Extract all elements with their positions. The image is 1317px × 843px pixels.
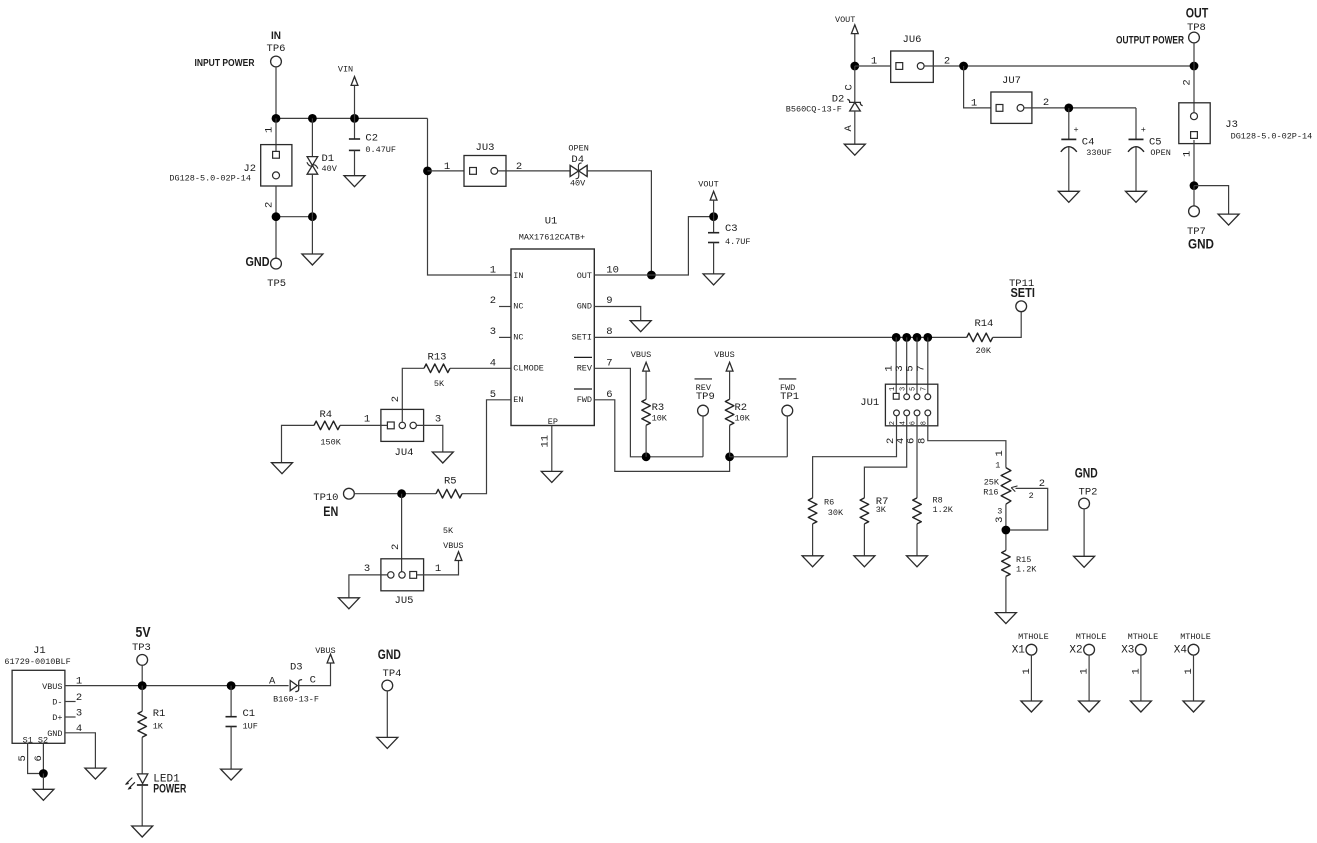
junction OUTPUT/TP8 [1190, 62, 1199, 71]
ground below C5 [1126, 191, 1147, 202]
wire R5 to U1 pin5 [462, 400, 511, 494]
wire SETI to JU1 pin5 [916, 337, 918, 394]
svg-text:J1: J1 [33, 645, 46, 657]
U1 pin 11 EP [539, 417, 558, 471]
ground right of TP7 [1218, 214, 1239, 225]
testpoint TP7 (GND) [1187, 206, 1214, 252]
connector J2 [169, 118, 292, 186]
wire GND node to TP5 [275, 217, 277, 259]
junction D4/OUT [647, 271, 656, 280]
svg-text:0.47UF: 0.47UF [365, 145, 396, 155]
junction 5V/C1 [227, 681, 236, 690]
junction IN/J2 [272, 114, 281, 123]
capacitor C5 OPEN [1128, 108, 1171, 191]
resistor R8 1.2K [913, 496, 954, 556]
svg-text:1: 1 [1021, 668, 1033, 674]
svg-text:U1: U1 [545, 216, 558, 228]
U1 pin 10 OUT [577, 265, 619, 281]
J3 pin 2 label [1182, 79, 1194, 85]
svg-text:1: 1 [871, 56, 877, 68]
svg-text:3: 3 [490, 326, 496, 338]
J1 pin 2 D- [52, 692, 82, 708]
svg-text:2: 2 [390, 396, 402, 402]
svg-text:2: 2 [1043, 97, 1049, 109]
capacitor C2 0.47UF [349, 118, 396, 175]
svg-text:C3: C3 [725, 223, 738, 235]
ground U1 pin9 [630, 321, 651, 332]
svg-text:TP5: TP5 [267, 278, 286, 290]
testpoint TP9 (/REV) [695, 379, 715, 457]
testpoint TP6 (IN, INPUT POWER) [195, 30, 286, 69]
svg-text:3K: 3K [876, 505, 887, 515]
TVS diode D1 40V [307, 118, 338, 216]
wire J1 pin1 5V net [65, 685, 289, 687]
wire to JU3 pin1 [428, 170, 465, 172]
svg-text:X4: X4 [1174, 645, 1188, 657]
svg-text:6: 6 [910, 421, 918, 425]
svg-text:3: 3 [899, 387, 907, 391]
svg-text:R3: R3 [652, 402, 665, 414]
svg-text:GND: GND [1075, 465, 1098, 481]
svg-text:GND: GND [1188, 236, 1214, 252]
svg-text:IN: IN [271, 30, 281, 42]
svg-text:EN: EN [323, 503, 338, 519]
svg-text:40V: 40V [322, 164, 338, 174]
svg-text:OPEN: OPEN [1150, 148, 1170, 158]
svg-text:OUTPUT POWER: OUTPUT POWER [1116, 35, 1184, 47]
wire U1 pin9 to ground [594, 307, 640, 321]
svg-text:IN: IN [513, 271, 523, 281]
testpoint TP3 (5V) [132, 624, 151, 665]
ground below R4 [272, 463, 293, 474]
svg-text:R5: R5 [444, 476, 457, 488]
mounting hole X2 MTHOLE [1069, 632, 1106, 701]
wire D4 to OUT node [587, 171, 651, 275]
svg-text:1: 1 [435, 563, 441, 575]
ground below U1 EP [541, 471, 562, 482]
svg-text:1: 1 [995, 460, 1000, 470]
wire shield to ground [42, 774, 44, 790]
wire JU4 pin3 to ground [416, 425, 442, 452]
JU1 inner pin numbers top [889, 387, 929, 391]
svg-text:1: 1 [889, 387, 897, 391]
wire GND node to TP7 [1193, 186, 1195, 207]
svg-text:C: C [844, 84, 856, 90]
svg-text:VBUS: VBUS [443, 541, 463, 551]
capacitor C4 330UF [1061, 108, 1112, 191]
svg-text:1: 1 [994, 450, 1006, 456]
svg-text:A: A [843, 125, 855, 132]
junction SETI/JU1 pin7 [923, 333, 932, 342]
junction R16 wiper/R15 [1002, 526, 1011, 535]
junction SETI/JU1 pin3 [902, 333, 911, 342]
resistor R14 20K [967, 318, 994, 356]
ground below R7 [854, 556, 875, 567]
jumper JU3 [464, 142, 506, 187]
svg-text:+: + [1074, 125, 1079, 135]
svg-text:3: 3 [994, 516, 1006, 522]
svg-text:2: 2 [390, 544, 402, 550]
junction SETI/JU1 pin1 [892, 333, 901, 342]
wire J2 pin2 to GND node [275, 186, 277, 217]
svg-text:1: 1 [490, 265, 496, 277]
svg-text:X3: X3 [1121, 645, 1134, 657]
capacitor C3 4.7UF [708, 217, 751, 274]
U1 pin 9 GND [577, 295, 613, 311]
power net VBUS at JU5 [443, 541, 463, 560]
wire FWD node to TP1 [730, 456, 788, 458]
junction EN/JU5 [397, 489, 406, 498]
svg-text:1: 1 [264, 127, 276, 133]
wire SETI to JU1 pin1 [895, 337, 897, 393]
J1 pin 4 GND [47, 723, 82, 739]
svg-text:1: 1 [444, 161, 450, 173]
connector J3 [1179, 103, 1312, 144]
ground below C2 [344, 176, 365, 187]
svg-text:C5: C5 [1149, 136, 1162, 148]
svg-text:JU5: JU5 [395, 595, 414, 607]
svg-text:10K: 10K [735, 414, 751, 424]
svg-text:2: 2 [490, 295, 496, 307]
wire R4 to JU4 [340, 424, 387, 426]
svg-text:5: 5 [910, 387, 918, 391]
wire VOUT to JU6 [855, 65, 891, 67]
op-amp U1 MAX17612CATB+ body [511, 216, 594, 426]
wire U1 pin8 SETI net [594, 336, 966, 338]
svg-text:POWER: POWER [153, 783, 187, 795]
svg-text:1: 1 [1182, 151, 1194, 157]
svg-text:5K: 5K [434, 379, 445, 389]
ground below D1 [302, 217, 323, 265]
resistor R4 150K [282, 409, 342, 463]
svg-text:VIN: VIN [338, 65, 353, 75]
potentiometer R16 25K [983, 460, 1048, 550]
wire JU1 pin2 to R6 [813, 416, 897, 498]
svg-text:10K: 10K [652, 414, 668, 424]
svg-text:TP4: TP4 [383, 668, 402, 680]
ground below X4 [1183, 701, 1204, 712]
mounting hole X4 MTHOLE [1174, 632, 1211, 701]
J2 pin 1 label [264, 127, 276, 133]
svg-text:D+: D+ [52, 713, 62, 723]
svg-text:JU3: JU3 [476, 142, 495, 154]
svg-text:MAX17612CATB+: MAX17612CATB+ [519, 233, 585, 243]
wire VIN bus (IN node) [276, 117, 428, 119]
wire GND node to D1 [276, 216, 312, 218]
ground below R8 [907, 556, 928, 567]
jumper JU6 [891, 34, 934, 83]
svg-text:D3: D3 [290, 662, 303, 674]
svg-text:B560CQ-13-F: B560CQ-13-F [786, 105, 842, 115]
junction JU6/JU7 [959, 62, 968, 71]
R16 net stub label 1 [994, 450, 1006, 456]
TVS diode D4 40V OPEN [568, 143, 588, 188]
connector J1 61729-0010BLF body [4, 645, 70, 743]
svg-text:INPUT POWER: INPUT POWER [195, 58, 256, 69]
wire U1 pin6 to FWD node [594, 400, 729, 472]
svg-text:4.7UF: 4.7UF [725, 237, 751, 247]
JU3 pin 1 label [444, 161, 450, 173]
power net VIN [338, 65, 358, 119]
JU4 pin 1 label [364, 414, 370, 426]
svg-text:R14: R14 [974, 318, 993, 330]
U1 pin 6 /FWD [574, 389, 613, 405]
resistor R5 5K [436, 476, 462, 537]
JU5 pin 1 label [435, 563, 441, 575]
svg-text:TP2: TP2 [1079, 486, 1098, 498]
junction VOUT node [709, 212, 718, 221]
svg-text:150K: 150K [320, 438, 341, 448]
ground below C4 [1058, 191, 1079, 202]
ground below TP2 [1074, 556, 1095, 567]
svg-text:2: 2 [1039, 478, 1045, 490]
wire IN bus down to U1 pin1 [428, 118, 512, 275]
U1 pin 3 NC [490, 326, 524, 343]
svg-text:FWD: FWD [577, 395, 592, 405]
svg-text:R4: R4 [319, 409, 332, 421]
U1 pin 7 /REV [574, 357, 613, 373]
wire TP6 to VIN bus [275, 67, 277, 119]
svg-text:3: 3 [435, 414, 441, 426]
wire JU6-2 down to JU7 [964, 66, 991, 108]
svg-text:R1: R1 [153, 708, 166, 720]
JU5 pin 3 label [364, 563, 370, 575]
wire GND node to ground [1194, 186, 1229, 215]
svg-text:GND: GND [246, 254, 270, 269]
svg-text:TP6: TP6 [267, 43, 286, 55]
svg-text:R2: R2 [735, 402, 748, 414]
resistor R13 5K [402, 352, 511, 422]
svg-text:REV: REV [577, 364, 593, 374]
svg-text:8: 8 [606, 326, 612, 338]
testpoint TP1 (/FWD) [779, 379, 799, 457]
jumper JU1 (4x2 header) [860, 384, 938, 426]
svg-text:+: + [1141, 125, 1146, 135]
svg-text:TP1: TP1 [780, 391, 799, 403]
junction J2/TP5 [272, 212, 281, 221]
svg-text:EN: EN [513, 395, 523, 405]
svg-text:JU1: JU1 [860, 397, 879, 409]
wire D3 cathode to VBUS [299, 663, 331, 686]
svg-text:VBUS: VBUS [315, 646, 335, 656]
svg-text:EP: EP [548, 417, 558, 427]
testpoint TP10 (EN) [313, 488, 354, 519]
svg-text:TP9: TP9 [696, 391, 715, 403]
junction R3/REV [642, 452, 651, 461]
svg-text:1K: 1K [153, 721, 164, 731]
wire JU3 to D4 [498, 170, 570, 172]
svg-text:C1: C1 [243, 708, 256, 720]
wire SETI to JU1 pin7 [927, 337, 929, 394]
svg-text:DG128-5.0-02P-14: DG128-5.0-02P-14 [169, 174, 251, 184]
U1 pin 5 EN [490, 389, 524, 405]
wire TP10 to R5 [354, 493, 436, 495]
svg-text:JU4: JU4 [395, 447, 414, 459]
JU3 pin 2 label [516, 161, 522, 173]
svg-text:C4: C4 [1082, 136, 1095, 148]
wire U1 pin7 to R3 node [594, 368, 703, 457]
wire JU6 to OUTPUT node [924, 65, 1194, 67]
wire JU7 to C4/C5 [1024, 107, 1136, 109]
testpoint TP11 (SETI) [1009, 278, 1035, 312]
mounting hole X3 MTHOLE [1121, 632, 1158, 701]
svg-text:2: 2 [76, 692, 82, 704]
wire J1 pin4 to ground [65, 733, 96, 768]
svg-text:1.2K: 1.2K [933, 505, 954, 515]
svg-text:TP3: TP3 [132, 642, 151, 654]
svg-text:3: 3 [997, 506, 1002, 516]
U1 pin 8 SETI [572, 326, 613, 343]
svg-text:VBUS: VBUS [42, 682, 62, 692]
resistor R6 30K [808, 498, 844, 556]
JU7 pin 1 label [971, 98, 977, 110]
junction D1 anode [308, 212, 317, 221]
ground below C3 [703, 274, 724, 285]
svg-text:1: 1 [1079, 668, 1091, 674]
junction 5V/R1 [138, 681, 147, 690]
svg-text:2: 2 [889, 421, 897, 425]
J1 pin 1 VBUS [42, 676, 82, 692]
power net VBUS at R2 [714, 350, 734, 399]
power net VBUS at D3 [315, 646, 335, 663]
jumper JU5 [381, 559, 424, 607]
svg-text:1: 1 [1183, 668, 1195, 674]
wire EN junction to JU5 [401, 494, 403, 572]
wire SETI to JU1 pin3 [906, 337, 908, 394]
svg-text:9: 9 [606, 295, 612, 307]
wire JU1 pin4 to R7 [864, 416, 906, 498]
JU1 inner pin numbers bottom [889, 421, 929, 425]
J1 shield pins S1 S2 [17, 736, 48, 774]
svg-text:5K: 5K [443, 526, 454, 536]
svg-text:DG128-5.0-02P-14: DG128-5.0-02P-14 [1231, 132, 1313, 142]
junction JU3 tap [423, 167, 432, 176]
zener diode D2 B560CQ-13-F [786, 66, 863, 144]
svg-text:MTHOLE: MTHOLE [1076, 632, 1107, 642]
ground below X3 [1130, 701, 1151, 712]
svg-text:5: 5 [17, 755, 29, 761]
svg-text:MTHOLE: MTHOLE [1128, 632, 1159, 642]
jumper JU7 [991, 75, 1032, 124]
svg-text:61729-0010BLF: 61729-0010BLF [4, 657, 70, 667]
wire TP3 down to 5V node [141, 665, 143, 686]
svg-text:MTHOLE: MTHOLE [1018, 632, 1049, 642]
svg-text:25K: 25K [984, 477, 1000, 487]
svg-text:1UF: 1UF [243, 721, 258, 731]
svg-text:TP8: TP8 [1187, 22, 1206, 34]
U1 pin 2 NC [490, 295, 524, 311]
svg-text:3: 3 [364, 563, 370, 575]
svg-text:VBUS: VBUS [631, 350, 651, 360]
testpoint TP5 (GND) [246, 254, 287, 290]
svg-text:R15: R15 [1016, 555, 1031, 565]
svg-text:8: 8 [916, 438, 928, 444]
svg-text:R6: R6 [824, 498, 834, 508]
svg-text:2: 2 [264, 202, 276, 208]
svg-text:B160-13-F: B160-13-F [273, 695, 319, 705]
svg-text:C2: C2 [365, 132, 378, 144]
resistor R15 1.2K [1002, 550, 1038, 612]
svg-text:S1 S2: S1 S2 [23, 736, 49, 746]
ground below LED1 [132, 826, 153, 837]
svg-text:7: 7 [920, 387, 928, 391]
svg-text:SETI: SETI [1010, 286, 1035, 300]
JU1 net stub labels 1 3 5 7 [884, 365, 928, 371]
svg-text:D4: D4 [571, 154, 584, 166]
JU6 pin 2 label [944, 56, 950, 68]
svg-text:J3: J3 [1225, 119, 1238, 131]
svg-text:D-: D- [52, 698, 62, 708]
svg-text:CLMODE: CLMODE [513, 364, 544, 374]
JU1 net stub labels 2 4 6 8 [885, 438, 928, 444]
ground below C1 [221, 769, 242, 780]
power net VOUT at C3 [698, 180, 718, 217]
svg-text:MTHOLE: MTHOLE [1180, 632, 1211, 642]
resistor R3 10K [642, 399, 668, 457]
J2 pin 2 label [264, 202, 276, 208]
svg-text:R8: R8 [933, 496, 943, 506]
wire JU5 pin3 to ground [349, 575, 388, 598]
svg-text:OPEN: OPEN [568, 143, 588, 153]
U1 pin 4 CLMODE [490, 358, 544, 374]
svg-text:R13: R13 [428, 352, 447, 364]
ground JU5 pin3 [338, 598, 359, 609]
ground below X1 [1021, 701, 1042, 712]
svg-text:11: 11 [539, 435, 551, 448]
junction R2/FWD [725, 452, 734, 461]
svg-text:NC: NC [513, 301, 523, 311]
svg-text:NC: NC [513, 333, 523, 343]
JU5 pin 2 label [390, 544, 402, 550]
svg-text:1: 1 [1130, 668, 1142, 674]
svg-text:330UF: 330UF [1086, 148, 1112, 158]
svg-text:SETI: SETI [572, 333, 592, 343]
JU4 pin 3 label [435, 414, 441, 426]
junction IN/D1 [308, 114, 317, 123]
power net VBUS at R3 [631, 350, 651, 399]
JU4 pin 2 label [390, 396, 402, 402]
svg-text:JU6: JU6 [903, 34, 922, 46]
wire JU1 pin6 to R8 [916, 416, 918, 498]
svg-text:30K: 30K [828, 508, 844, 518]
junction J3/TP7 [1190, 181, 1199, 190]
junction IN/C2 [350, 114, 359, 123]
svg-text:4: 4 [899, 421, 907, 425]
J1 pin 3 D+ [52, 708, 82, 724]
testpoint TP4 (GND) [378, 646, 402, 737]
svg-text:40V: 40V [570, 179, 586, 189]
svg-text:1: 1 [364, 414, 370, 426]
power net VOUT at D2 [835, 15, 858, 66]
junction JU7/C4 [1064, 104, 1073, 113]
ground below X2 [1079, 701, 1100, 712]
J3 pin 1 label [1182, 151, 1194, 157]
svg-text:VBUS: VBUS [714, 350, 734, 360]
wire TP8 node down to J3 [1193, 66, 1195, 113]
junction SETI/JU1 pin5 [913, 333, 922, 342]
resistor R7 3K [860, 496, 888, 556]
svg-text:2: 2 [1182, 79, 1194, 85]
junction S1/S2 [39, 769, 48, 778]
svg-text:6: 6 [33, 755, 45, 761]
wire JU5 pin1 to VBUS [417, 560, 459, 575]
svg-text:C: C [310, 675, 316, 687]
wire U1 OUT to VOUT corner [594, 217, 713, 275]
U1 pin 1 IN [490, 265, 524, 281]
svg-text:OUT: OUT [1186, 6, 1209, 21]
svg-text:GND: GND [577, 301, 592, 311]
resistor R1 1K [138, 686, 165, 774]
